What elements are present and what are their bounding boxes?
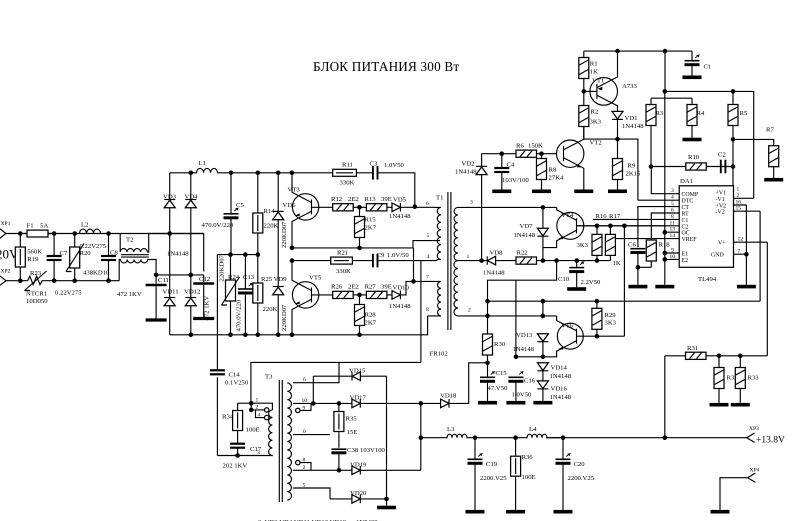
svg-text:C2: C2 [718, 152, 726, 159]
diode VD18 [421, 363, 488, 408]
svg-text:T1: T1 [436, 195, 443, 202]
svg-text:VT4: VT4 [561, 212, 574, 219]
resistor R19 560K [15, 234, 42, 281]
svg-text:1K: 1K [590, 68, 598, 75]
wire C14 column [216, 255, 218, 456]
svg-text:11: 11 [670, 220, 676, 226]
T3 pin 9 stub [296, 403, 311, 412]
junction [249, 408, 254, 413]
junction [337, 401, 342, 406]
transistor VT1 A733 [584, 51, 638, 111]
svg-text:220KD07: 220KD07 [219, 254, 226, 281]
svg-text:8: 8 [671, 214, 674, 220]
wire T3 pin3 bottom [217, 454, 272, 456]
diode VD14 1N4148 [537, 363, 571, 381]
svg-text:XP3: XP3 [749, 426, 759, 432]
T1 core [448, 192, 451, 330]
transistor VT6 [516, 316, 583, 357]
junction [154, 273, 159, 278]
svg-text:472 1KV: 472 1KV [204, 296, 211, 321]
svg-text:14: 14 [670, 233, 676, 239]
svg-text:R33: R33 [748, 374, 760, 381]
junction [229, 171, 234, 176]
wire R30 column [487, 301, 489, 334]
wire input top row [6, 233, 204, 235]
svg-text:V+: V+ [718, 241, 726, 247]
wire T1 pin7 stub [414, 280, 438, 282]
transistor VT2 [557, 126, 602, 193]
svg-text:2E2: 2E2 [348, 284, 359, 291]
wire T3 feed row [251, 362, 421, 403]
wire VT6 base riser [623, 226, 625, 336]
diode VD9 [273, 276, 288, 335]
svg-text:1N4148: 1N4148 [389, 303, 411, 310]
svg-text:L4: L4 [529, 426, 537, 433]
wire output row mid [475, 437, 526, 439]
capacitor C10 2.2V50 [558, 261, 601, 291]
svg-text:R2: R2 [591, 108, 599, 115]
svg-text:C7: C7 [60, 250, 68, 257]
svg-text:3: 3 [470, 200, 473, 206]
svg-text:C13: C13 [243, 274, 255, 281]
T3 pin 4 stub [256, 410, 269, 420]
svg-text:150K: 150K [528, 143, 543, 150]
T3 pin 8 stub [296, 457, 311, 470]
svg-text:R19: R19 [27, 256, 39, 263]
varistor R24 [219, 254, 240, 334]
T3 pin 5 stub [293, 483, 330, 499]
svg-text:-V2: -V2 [716, 210, 725, 216]
junction [106, 231, 111, 236]
svg-text:2200.V25: 2200.V25 [568, 475, 595, 482]
junction [189, 171, 194, 176]
resistor R25 220K [253, 255, 278, 335]
wire C16 column upper [515, 280, 517, 357]
svg-text:L1: L1 [199, 160, 206, 167]
resistor R17 1K [605, 213, 620, 267]
svg-text:7: 7 [426, 275, 429, 281]
svg-text:12: 12 [738, 237, 744, 243]
wire VT4 emitter node column [516, 261, 557, 281]
wire VREF row [615, 238, 667, 240]
svg-text:27K4: 27K4 [549, 174, 565, 181]
junction [485, 299, 490, 304]
T2 core [121, 255, 149, 257]
svg-text:C15: C15 [496, 370, 508, 377]
svg-text:220K: 220K [263, 306, 278, 313]
svg-text:VD7: VD7 [520, 223, 534, 230]
svg-text:3: 3 [671, 188, 674, 194]
capacitor C6 [628, 242, 645, 268]
fuse F1 [24, 222, 51, 237]
capacitor C4 103V/100 [492, 154, 529, 193]
svg-text:TL494: TL494 [698, 276, 717, 283]
junction [290, 171, 295, 176]
resistor R14 220K [253, 173, 279, 255]
junction [479, 258, 484, 263]
svg-text:5: 5 [427, 233, 430, 239]
svg-text:2200.V25: 2200.V25 [480, 475, 507, 482]
resistor R16 3K3 [577, 213, 608, 260]
svg-text:R26: R26 [331, 284, 343, 291]
svg-text:VD18: VD18 [440, 392, 457, 399]
resistor R28 2K7 [355, 295, 377, 335]
svg-text:4: 4 [258, 412, 261, 418]
svg-text:R10: R10 [688, 154, 700, 161]
diode VD12 [184, 289, 200, 335]
junction [290, 246, 295, 251]
svg-text:VD3: VD3 [163, 194, 177, 201]
svg-text:+V1: +V1 [716, 190, 727, 196]
wire pin1 row [465, 260, 611, 262]
svg-text:VD10: VD10 [393, 284, 410, 291]
svg-text:438KD10: 438KD10 [83, 269, 110, 276]
junction [413, 204, 418, 209]
junction [228, 252, 233, 257]
junction [615, 137, 620, 142]
resistor R7 [764, 126, 783, 181]
svg-text:15: 15 [736, 206, 742, 212]
wire R21 row [292, 261, 421, 363]
svg-text:39E: 39E [381, 196, 392, 203]
svg-text:NTCR1: NTCR1 [26, 290, 47, 297]
wire VT4 base row to R16/R17 [577, 225, 667, 227]
svg-text:XP2: XP2 [1, 268, 11, 274]
svg-text:C14: C14 [229, 371, 241, 378]
junction input [18, 231, 23, 236]
svg-text:R25: R25 [261, 276, 273, 283]
wire upper rail 2 [665, 51, 754, 198]
svg-text:10: 10 [302, 398, 308, 404]
svg-text:472 1KV: 472 1KV [117, 291, 142, 298]
svg-text:10: 10 [670, 254, 676, 260]
T3 pin 0 stub [293, 429, 330, 435]
wire VT3 emitter row / T1 pin5 [292, 241, 440, 248]
svg-text:R9: R9 [628, 162, 636, 169]
svg-text:E1: E1 [682, 252, 689, 258]
resistor R18 [646, 240, 670, 267]
svg-text:6: 6 [303, 377, 306, 383]
resistor R21 330K [331, 250, 353, 275]
svg-text:1N4148: 1N4148 [455, 168, 477, 175]
capacitor C16 1.0V50 [506, 372, 535, 405]
svg-text:5A: 5A [40, 222, 48, 229]
svg-text:DA1: DA1 [680, 178, 693, 185]
wire -V2 riser to bus [759, 211, 761, 301]
svg-text:1: 1 [467, 254, 470, 260]
capacitor C1 [683, 51, 712, 79]
svg-text:8: 8 [303, 457, 306, 463]
svg-text:R27: R27 [365, 284, 377, 291]
resistor R30 [483, 334, 506, 363]
svg-text:RT: RT [682, 212, 690, 218]
wire CT to C6 [638, 207, 667, 248]
junction [337, 468, 342, 473]
svg-text:XP4: XP4 [750, 468, 760, 474]
svg-text:13: 13 [670, 227, 676, 233]
resistor R13 39E [353, 196, 392, 211]
inductor L3 [421, 426, 475, 438]
svg-text:4: 4 [671, 195, 674, 201]
junction [582, 89, 587, 94]
svg-text:XP1: XP1 [1, 221, 11, 227]
svg-text:2: 2 [737, 193, 740, 199]
junction [72, 231, 77, 236]
svg-text:R11: R11 [342, 161, 353, 168]
wire C6/R18 ground [638, 267, 651, 285]
wire AC1 row to bridge [167, 231, 172, 236]
svg-text:FR102: FR102 [430, 351, 448, 358]
svg-text:VD15: VD15 [349, 367, 366, 374]
resistor R34 100E [222, 403, 260, 444]
connector XP2 [0, 268, 11, 285]
svg-text:VD4: VD4 [185, 194, 199, 201]
svg-text:+13.8V: +13.8V [756, 435, 785, 445]
wire input bottom row [6, 280, 119, 282]
wire T1 pin4 stub [421, 260, 437, 262]
svg-text:10D050: 10D050 [26, 298, 48, 305]
diode VD11 [163, 289, 179, 335]
svg-text:C38: C38 [347, 447, 359, 454]
junction [52, 231, 57, 236]
svg-text:VT6: VT6 [561, 323, 574, 330]
svg-text:220K: 220K [264, 223, 279, 230]
T3 primary winding [269, 410, 273, 456]
svg-text:R17: R17 [609, 213, 621, 220]
svg-text:5: 5 [671, 201, 674, 207]
ground E1/E2 [655, 285, 674, 289]
resistor R2 3K3 [579, 106, 602, 140]
junction [595, 334, 600, 339]
wire DTC riser [638, 199, 667, 201]
svg-text:VD19: VD19 [350, 462, 367, 469]
op-amp U1 DA1 TL494 box [679, 178, 733, 283]
capacitor C7 [47, 234, 68, 281]
svg-text:4: 4 [427, 254, 430, 260]
capacitor C14 0.1V250 [210, 370, 249, 386]
inductor L4 [526, 426, 563, 438]
pin stubs left with numbers [667, 188, 680, 260]
svg-text:OC: OC [682, 231, 690, 237]
T3 pin 2 stub [251, 403, 269, 412]
resistor R6 150K [516, 142, 543, 157]
svg-text:R31: R31 [687, 345, 698, 352]
diode VD16 1N4148 [533, 381, 571, 405]
svg-text:C12: C12 [199, 276, 210, 283]
svg-text:VD5: VD5 [393, 197, 407, 204]
svg-text:8: 8 [426, 307, 429, 313]
resistor R22 [516, 249, 537, 264]
svg-text:R4: R4 [697, 110, 705, 117]
svg-text:R28: R28 [365, 312, 377, 319]
wire pin16 / GND column [745, 205, 747, 285]
svg-text:R23: R23 [30, 270, 42, 277]
resistor R27 39E [353, 284, 392, 299]
svg-text:C5: C5 [236, 202, 244, 209]
svg-text:47.V50: 47.V50 [488, 385, 509, 392]
svg-text:VD13: VD13 [516, 332, 533, 339]
resistor R11 330K [333, 161, 357, 186]
T3 secondary winding [287, 383, 291, 500]
junction [357, 293, 362, 298]
wire VD17/VD19 common column [420, 403, 422, 470]
svg-text:VT3: VT3 [288, 187, 301, 194]
svg-text:VD8: VD8 [490, 249, 504, 256]
svg-text:0.22V275: 0.22V275 [80, 243, 107, 250]
svg-text:C2: C2 [682, 224, 689, 230]
junction [649, 164, 654, 169]
resistor R29 3K3 [592, 301, 617, 336]
svg-text:+V2: +V2 [716, 204, 727, 210]
wire R7 row [733, 139, 774, 145]
diode VD1 1N4148 [612, 111, 644, 139]
junction [384, 497, 389, 502]
svg-text:9: 9 [671, 248, 674, 254]
wire RT to R18 [651, 213, 666, 240]
svg-text:E2: E2 [682, 258, 689, 264]
svg-text:1K: 1K [613, 260, 621, 267]
svg-text:2.2V50: 2.2V50 [581, 279, 602, 286]
varistor R20 438KD10 [66, 234, 110, 281]
svg-text:VREF: VREF [682, 237, 698, 243]
junction [595, 224, 600, 229]
junction [255, 171, 260, 176]
resistor R3 [646, 98, 692, 166]
svg-text:3K3: 3K3 [590, 119, 602, 126]
svg-text:2E2: 2E2 [348, 196, 359, 203]
wire VD13 riser [542, 301, 544, 316]
svg-text:R5: R5 [740, 110, 748, 117]
junction [615, 49, 620, 54]
resistor R5 [728, 91, 748, 192]
resistor R26 2E2 [312, 284, 359, 299]
junction [541, 355, 546, 360]
resistor R8 27K4 [532, 154, 564, 193]
svg-text:0.1V250: 0.1V250 [225, 380, 249, 387]
wire VD15 riser [312, 376, 314, 403]
svg-text:1N4148: 1N4148 [389, 213, 411, 220]
svg-text:R22: R22 [517, 249, 528, 256]
svg-text:C11: C11 [158, 277, 169, 284]
resistor R35 15E [334, 403, 357, 447]
svg-text:T3: T3 [265, 374, 273, 381]
wire V+ riser [766, 242, 768, 356]
svg-text:R3: R3 [656, 110, 664, 117]
diode VD15 [313, 367, 386, 380]
diode VD20 [330, 490, 387, 503]
svg-text:1N4148: 1N4148 [167, 251, 189, 258]
svg-text:R16: R16 [596, 213, 608, 220]
T1 secondary winding [454, 207, 465, 316]
wire output row right [546, 437, 747, 439]
resistor R4 [683, 98, 705, 141]
junction [663, 230, 668, 235]
junction [419, 401, 424, 406]
svg-text:-V1: -V1 [716, 197, 725, 203]
wire bottom bus [170, 316, 428, 335]
svg-text:9: 9 [303, 405, 306, 411]
capacitor C20 2200.V25 [554, 438, 595, 514]
wire COMP riser [651, 167, 666, 194]
inductor L2 [80, 222, 101, 234]
svg-text:COMP: COMP [682, 192, 699, 198]
svg-text:GND: GND [711, 253, 725, 259]
svg-text:6: 6 [671, 208, 674, 214]
svg-text:560K: 560K [27, 249, 42, 256]
svg-text:R35: R35 [346, 415, 358, 422]
svg-text:L3: L3 [447, 426, 455, 433]
wire pin8 feedback row [593, 218, 667, 220]
svg-text:R7: R7 [766, 126, 774, 133]
svg-text:1N4148: 1N4148 [622, 123, 644, 130]
svg-text:R30: R30 [494, 341, 506, 348]
svg-text:2: 2 [303, 465, 306, 471]
svg-text:VD9: VD9 [274, 276, 288, 283]
capacitor C15 47.V50 [478, 363, 508, 405]
svg-text:C17: C17 [250, 446, 262, 453]
T2 upper coil [120, 234, 204, 253]
junction [561, 435, 566, 440]
node T1 pin7 junction [411, 279, 416, 284]
junction [541, 205, 546, 210]
capacitor X2 0.22V275 [55, 234, 116, 297]
svg-text:C9: C9 [377, 252, 385, 259]
svg-text:T2: T2 [126, 237, 133, 244]
svg-text:C10: C10 [558, 276, 570, 283]
wire VT2 collector row [584, 139, 638, 200]
svg-text:F1: F1 [27, 222, 34, 229]
svg-text:VD20: VD20 [350, 490, 367, 497]
wire long bus 301 [488, 300, 761, 302]
svg-text:39E: 39E [381, 284, 392, 291]
junction [663, 89, 668, 94]
junction [539, 151, 544, 156]
svg-text:VD17: VD17 [350, 394, 367, 401]
svg-text:VD6: VD6 [283, 202, 297, 209]
wire T1 pin3 row [465, 206, 557, 208]
svg-text:1N4148: 1N4148 [550, 394, 572, 401]
svg-text:VD14: VD14 [551, 364, 568, 371]
wire VT6 base row [577, 335, 625, 337]
svg-text:A733: A733 [622, 83, 638, 90]
svg-text:2K15: 2K15 [626, 170, 642, 177]
connector XP1 [0, 221, 11, 239]
wire R31 row [665, 356, 768, 438]
capacitor C9 1.0V/50 [373, 252, 409, 268]
wire pin2 row [465, 315, 557, 317]
diode VD4 [185, 173, 199, 298]
svg-text:1.0V50: 1.0V50 [384, 162, 405, 169]
capacitor C12 472 1KV [193, 234, 214, 321]
svg-text:1: 1 [256, 398, 259, 404]
svg-text:103V100: 103V100 [360, 447, 386, 454]
svg-text:CT: CT [682, 205, 690, 211]
svg-text:C20: C20 [574, 461, 586, 468]
svg-text:5: 5 [303, 483, 306, 489]
svg-text:470.0V/220: 470.0V/220 [236, 299, 243, 331]
resistor R15 2K7 [355, 207, 377, 248]
resistor R1 1K [579, 51, 598, 105]
junction [731, 137, 736, 142]
svg-text:VT2: VT2 [590, 140, 602, 147]
T3 core [279, 380, 282, 502]
thermistor R23 NTCR1 10D050 [25, 270, 49, 305]
svg-text:16: 16 [736, 200, 742, 206]
svg-text:0.22V275: 0.22V275 [55, 290, 82, 297]
connector XP3 +13.8V [747, 426, 785, 445]
capacitor C5 470.0V/220 [202, 173, 245, 255]
svg-text:VD1: VD1 [625, 115, 638, 122]
